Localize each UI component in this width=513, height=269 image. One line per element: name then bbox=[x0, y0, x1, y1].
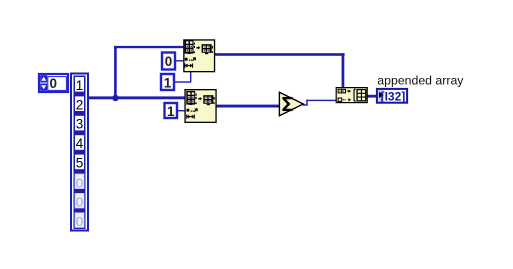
svg-text:3: 3 bbox=[76, 117, 84, 132]
svg-text:4: 4 bbox=[76, 136, 84, 151]
svg-text:0: 0 bbox=[76, 214, 83, 229]
svg-text:appended array: appended array bbox=[377, 74, 464, 88]
svg-text:0: 0 bbox=[76, 195, 83, 210]
svg-text:0: 0 bbox=[76, 175, 83, 190]
svg-text:1: 1 bbox=[164, 76, 172, 91]
svg-text:1: 1 bbox=[167, 104, 175, 119]
svg-text:5: 5 bbox=[76, 156, 84, 171]
svg-text:1: 1 bbox=[76, 78, 84, 93]
svg-text:0: 0 bbox=[165, 54, 173, 69]
svg-text:[I32]: [I32] bbox=[381, 89, 406, 103]
svg-text:2: 2 bbox=[76, 97, 84, 112]
svg-text:0: 0 bbox=[50, 76, 58, 91]
